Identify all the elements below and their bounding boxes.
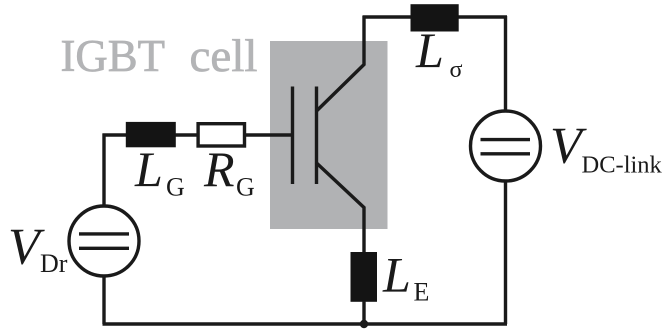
voltage source V_Dr bbox=[69, 206, 139, 276]
IGBT Q1 emitter lead bbox=[316, 163, 364, 254]
svg-text:cell: cell bbox=[190, 31, 258, 81]
svg-text:L: L bbox=[382, 246, 411, 302]
resistor R_G bbox=[198, 124, 244, 146]
IGBT Q1 collector lead bbox=[316, 16, 364, 112]
voltage source V_DC-link bbox=[471, 111, 541, 181]
svg-text:G: G bbox=[236, 173, 255, 202]
IGBT Q1 gate bar bbox=[291, 87, 294, 185]
wire right top vertical bbox=[504, 16, 507, 111]
IGBT cell shaded region bbox=[270, 41, 388, 229]
wire gate horizontal bbox=[103, 133, 294, 136]
wire bottom bbox=[103, 322, 508, 325]
svg-text:G: G bbox=[166, 173, 185, 202]
wire right bottom vertical bbox=[504, 181, 507, 324]
svg-text:Dr: Dr bbox=[40, 249, 68, 278]
wire left bottom vertical bbox=[102, 277, 105, 325]
inductor L_sigma bbox=[411, 4, 459, 31]
svg-text:R: R bbox=[203, 141, 235, 197]
wire top (collector node to DC-link) bbox=[363, 15, 508, 18]
junction node bbox=[360, 320, 368, 328]
svg-text:L: L bbox=[415, 22, 444, 78]
inductor L_E bbox=[351, 252, 378, 302]
inductor L_G bbox=[126, 122, 176, 147]
svg-text:E: E bbox=[414, 278, 430, 307]
wire left top vertical bbox=[102, 134, 105, 208]
svg-text:L: L bbox=[134, 141, 163, 197]
svg-text:σ: σ bbox=[450, 57, 463, 83]
IGBT Q1 body bar bbox=[315, 87, 318, 185]
wire below L_E bbox=[362, 301, 365, 324]
svg-text:DC-link: DC-link bbox=[582, 151, 663, 178]
svg-text:IGBT: IGBT bbox=[61, 31, 166, 81]
